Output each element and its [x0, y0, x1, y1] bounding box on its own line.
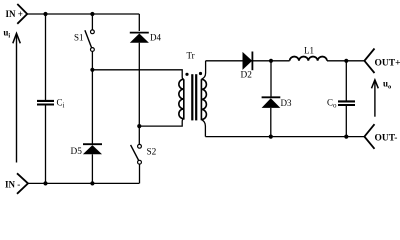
svg-text:S1: S1: [74, 33, 84, 43]
wire D4 to node B: [138, 43, 140, 145]
polarity dot primary: [185, 73, 188, 76]
wire D3 branch lower: [270, 108, 272, 137]
svg-text:OUT-: OUT-: [375, 133, 398, 143]
node bottom rail / D5: [90, 181, 94, 185]
wire node A to primary: [92, 70, 183, 79]
diode D4: [130, 33, 149, 43]
terminal OUT+: [364, 49, 374, 74]
terminal IN+: [17, 4, 27, 24]
node B junction: [137, 124, 141, 128]
capacitor Ci: [37, 101, 54, 105]
svg-text:S2: S2: [147, 148, 157, 158]
node A junction: [90, 68, 94, 72]
diode D2: [243, 52, 253, 71]
arrow uo: [372, 80, 379, 117]
polarity dot secondary: [199, 72, 202, 75]
wire bottom rail: [28, 182, 139, 184]
wire top rail: [27, 13, 139, 15]
node bottom rail / Ci: [43, 181, 47, 185]
wire D2 to L1: [252, 60, 289, 62]
wire D3 branch upper: [270, 61, 272, 97]
wire D4 branch from top rail: [138, 14, 140, 31]
wire D5 to bottom rail: [91, 154, 93, 183]
switch S2: [131, 144, 142, 164]
wire secondary top lead: [201, 61, 205, 80]
svg-text:L1: L1: [304, 46, 314, 56]
svg-text:OUT+: OUT+: [375, 58, 400, 68]
node Co top junction: [344, 59, 348, 63]
wire S1 branch upper: [91, 14, 93, 30]
transformer core: [191, 74, 197, 120]
terminal IN-: [17, 173, 28, 194]
svg-text:D3: D3: [281, 98, 292, 108]
wire S2 to bottom rail: [139, 164, 141, 183]
capacitor Co: [338, 101, 355, 105]
wire secondary top rail to D2: [206, 60, 243, 62]
arrow ui: [13, 33, 20, 162]
wire S1 to node A: [91, 51, 93, 145]
svg-text:Tr: Tr: [187, 51, 195, 61]
svg-text:IN +: IN +: [6, 9, 23, 19]
wire Ci branch lower: [45, 106, 47, 184]
switch S1: [85, 30, 94, 51]
svg-text:IN -: IN -: [5, 180, 20, 190]
transformer Tr secondary winding: [201, 79, 206, 119]
node top rail / Ci: [43, 12, 47, 16]
terminal OUT-: [364, 124, 374, 149]
wire Ci branch upper: [45, 14, 47, 100]
svg-text:D2: D2: [241, 71, 253, 81]
svg-text:D4: D4: [150, 33, 161, 43]
transformer Tr primary winding: [179, 79, 184, 119]
wire Co branch lower: [345, 106, 347, 137]
node top rail / S1: [90, 12, 94, 16]
diode D5: [83, 144, 102, 154]
wire L1 to OUT+: [327, 60, 364, 62]
svg-text:D5: D5: [71, 147, 83, 157]
wire Co branch upper: [345, 61, 347, 101]
wire primary to node B: [139, 119, 184, 126]
node Co bottom junction: [344, 135, 348, 139]
node D3 bottom junction: [269, 135, 273, 139]
diode D3: [262, 97, 281, 108]
wire secondary bottom lead: [201, 120, 205, 137]
wire secondary bottom rail: [205, 136, 364, 138]
inductor L1: [290, 57, 327, 61]
node D3 top junction: [269, 59, 273, 63]
